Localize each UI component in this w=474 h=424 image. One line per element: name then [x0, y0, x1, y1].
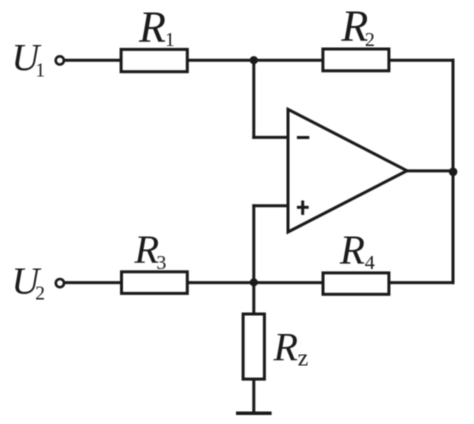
- wire R4 to right rail: [389, 281, 455, 284]
- ground: [236, 411, 272, 415]
- svg-text:2: 2: [365, 29, 375, 51]
- resistor R4: [323, 273, 389, 294]
- label Rz: [273, 324, 309, 371]
- resistor Rz: [243, 314, 264, 379]
- node U1 label: [12, 37, 46, 81]
- svg-text:1: 1: [165, 30, 175, 51]
- wire right rail vertical: [452, 59, 455, 284]
- wire R2 to right rail: [389, 59, 455, 62]
- label R4: [339, 226, 375, 274]
- terminal U2: [56, 279, 64, 287]
- wire U2 to R3: [65, 281, 123, 284]
- svg-text:z: z: [298, 345, 309, 371]
- wire to non-inverting input: [252, 204, 289, 207]
- resistor R1: [121, 49, 187, 71]
- op-amp triangle: [288, 109, 407, 232]
- svg-text:4: 4: [365, 252, 375, 274]
- resistor R3: [122, 272, 188, 294]
- wire to inverting input: [252, 136, 289, 139]
- svg-text:1: 1: [35, 60, 45, 81]
- junction node A (inverting input tap): [250, 56, 258, 64]
- svg-text:R: R: [339, 226, 365, 272]
- wire node B to Rz: [252, 283, 255, 315]
- label R1: [138, 2, 175, 51]
- resistor R2: [323, 49, 389, 71]
- node U2 label: [12, 261, 46, 305]
- junction node B (non-inverting input tap): [250, 278, 258, 286]
- wire Rz to ground: [252, 379, 255, 414]
- wire node A down to inverting input: [252, 60, 255, 139]
- label R2: [340, 2, 375, 52]
- svg-text:R: R: [138, 2, 166, 51]
- wire U1 to R1: [65, 59, 123, 62]
- svg-text:3: 3: [156, 252, 166, 274]
- op-amp inverting (-) sign: [297, 136, 309, 139]
- wire node B up to non-inverting input: [252, 204, 255, 282]
- label R3: [133, 227, 166, 274]
- svg-text:2: 2: [35, 283, 45, 304]
- wire R1 to R2: [187, 59, 324, 62]
- wire op-amp output: [406, 169, 454, 172]
- op-amp non-inverting (+) sign: [297, 201, 309, 215]
- wire R3 to R4: [187, 281, 324, 284]
- junction output node: [449, 168, 458, 177]
- svg-text:R: R: [273, 324, 298, 369]
- terminal U1: [56, 56, 64, 64]
